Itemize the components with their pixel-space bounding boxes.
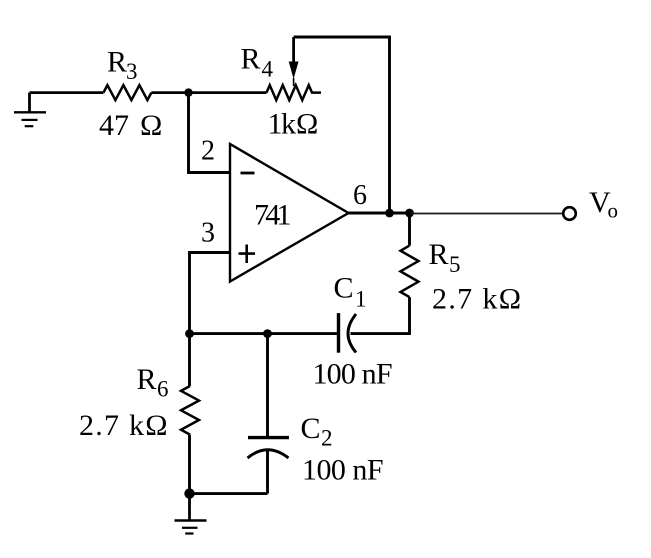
svg-text:C: C	[334, 272, 354, 305]
wire: bottom run from node F to C2 branch	[190, 492, 268, 495]
wire: R6 bottom to ground node F	[188, 435, 191, 494]
resistor R6	[181, 386, 199, 435]
svg-text:R: R	[429, 238, 449, 271]
wire: op-amp output to node B	[349, 212, 413, 215]
svg-text:Ω: Ω	[296, 108, 318, 141]
wire: node D down to R6	[188, 334, 191, 386]
svg-text:R: R	[241, 43, 261, 76]
label R6	[137, 363, 169, 402]
svg-text:R: R	[137, 363, 157, 396]
svg-text:o: o	[608, 199, 619, 223]
wire: GND1 to R3 left terminal	[30, 91, 104, 94]
ground GND1 (top left)	[14, 93, 46, 127]
capacitor C2 curved plate	[248, 450, 289, 458]
label R3	[107, 46, 138, 85]
wire: feedback from wiper up and over to output node	[294, 37, 390, 213]
svg-text:R: R	[107, 46, 127, 79]
op-amp U1 741 triangle	[230, 144, 349, 282]
wire: R3 right to node A to R4 left	[151, 91, 266, 94]
svg-text:3: 3	[201, 218, 215, 249]
label R4	[241, 43, 274, 82]
label C1	[334, 272, 367, 312]
svg-text:100 nF: 100 nF	[313, 358, 393, 391]
svg-text:3: 3	[126, 59, 138, 84]
label R3 value 47 ohm	[99, 109, 162, 142]
ground GND2 (bottom)	[175, 494, 207, 534]
svg-text:100 nF: 100 nF	[302, 454, 384, 487]
svg-text:741: 741	[254, 199, 292, 232]
svg-text:C: C	[301, 412, 321, 445]
node B junction dot (feedback/output)	[385, 209, 394, 218]
svg-text:2.7 kΩ: 2.7 kΩ	[432, 283, 521, 316]
label R4 value 1 kohm	[268, 108, 319, 141]
node D junction dot (left rail / C1)	[185, 329, 194, 338]
svg-text:1: 1	[355, 287, 367, 312]
wire: C2 bottom to bottom wire	[266, 451, 269, 494]
R4 wiper arrow	[289, 37, 299, 86]
label C2	[301, 412, 333, 451]
svg-text:47: 47	[99, 109, 129, 142]
svg-text:2.7 kΩ: 2.7 kΩ	[79, 409, 168, 442]
resistor R3	[103, 85, 151, 100]
svg-text:2: 2	[321, 426, 333, 451]
resistor R5	[401, 246, 419, 298]
node A junction dot (R3/R4/pin2)	[184, 88, 192, 96]
capacitor C1 straight plate	[337, 313, 340, 353]
wire: C1 left plate to left rail	[190, 332, 338, 335]
capacitor C1 curved plate	[348, 314, 356, 353]
svg-text:2: 2	[201, 136, 215, 167]
op-amp inverting input minus sign	[241, 172, 255, 175]
label R5	[429, 238, 461, 277]
node C junction dot (R5 top)	[405, 209, 414, 218]
wire: node E down to C2 top plate	[266, 334, 269, 436]
wire: node C down to R5	[408, 213, 411, 246]
resistor R4 (rheostat)	[267, 85, 322, 100]
svg-text:5: 5	[449, 252, 461, 277]
wire: R5 bottom to C1 right plate	[351, 297, 410, 334]
wire: node A down to pin 2	[189, 93, 230, 173]
op-amp non-inverting input plus sign	[239, 245, 256, 264]
output terminal circle Vo	[563, 207, 576, 220]
svg-text:6: 6	[157, 377, 169, 402]
wire: node C to output terminal (thin)	[410, 213, 563, 215]
wire: pin 3 to left rail	[190, 253, 230, 334]
node E junction dot (C2 branch)	[263, 329, 272, 338]
label Vo	[589, 186, 618, 223]
svg-text:6: 6	[353, 180, 367, 211]
svg-text:Ω: Ω	[140, 109, 162, 142]
svg-text:k: k	[281, 108, 296, 141]
capacitor C2 straight plate	[248, 436, 289, 439]
svg-text:4: 4	[262, 57, 274, 82]
node F junction dot (ground node)	[184, 488, 194, 498]
